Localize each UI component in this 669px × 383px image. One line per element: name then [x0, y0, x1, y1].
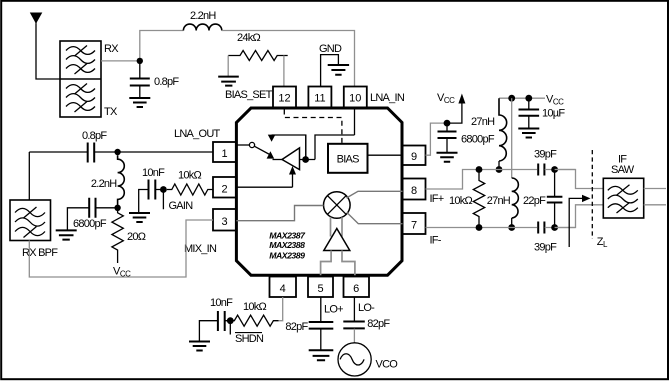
BIAS box	[328, 144, 368, 173]
pin 11	[308, 87, 331, 108]
node SHDN junction	[227, 317, 234, 324]
inductor 2.2nH (LNA_OUT)	[118, 155, 125, 208]
svg-text:BIAS: BIAS	[337, 153, 359, 165]
svg-text:10nF: 10nF	[210, 297, 233, 309]
dashed control line pin12 to BIAS	[284, 110, 342, 144]
pin 8	[403, 179, 426, 200]
op-amp U1 LNA	[282, 148, 300, 170]
capacitor 0.8pF (at duplexer RX)	[130, 61, 150, 98]
svg-text:LO-: LO-	[358, 302, 375, 314]
svg-text:IF-: IF-	[430, 235, 442, 247]
capacitor 82pF (LO-)	[343, 322, 365, 343]
switch blade	[254, 146, 271, 155]
svg-text:LNA_OUT: LNA_OUT	[174, 128, 221, 140]
capacitor 22pF	[547, 170, 563, 228]
node 10uF tap	[525, 95, 532, 102]
svg-text:22pF: 22pF	[523, 195, 546, 207]
wire IF- to SAW	[555, 205, 604, 228]
svg-text:6800pF: 6800pF	[461, 134, 495, 146]
ZL reference dashed line	[591, 150, 593, 239]
svg-text:GND: GND	[319, 43, 342, 55]
wire amp output to throw	[273, 159, 283, 161]
wire RX BPF to MIX_IN	[29, 220, 213, 277]
node 10k bottom	[476, 224, 483, 231]
node choke2 tap	[508, 95, 515, 102]
wire IF+ to SAW	[555, 170, 604, 189]
IF SAW block	[603, 178, 643, 218]
wire top rail to pin 10	[222, 31, 355, 87]
svg-text:2.2nH: 2.2nH	[91, 178, 117, 190]
node choke1 to IF+ rail	[496, 166, 503, 173]
svg-text:MAX2387: MAX2387	[269, 230, 306, 240]
wire pin10 interior	[354, 108, 356, 135]
svg-text:20Ω: 20Ω	[127, 231, 146, 243]
switch throw contact (amp side)	[267, 151, 275, 158]
output wires	[644, 189, 666, 205]
resistor 20 ohm	[112, 208, 123, 263]
pin 12	[273, 87, 296, 108]
svg-text:39pF: 39pF	[534, 242, 557, 254]
svg-text:TX: TX	[104, 106, 118, 118]
node 39pF/22pF bottom	[551, 224, 558, 231]
svg-text:24kΩ: 24kΩ	[237, 32, 260, 44]
node pin9 VCC junction	[444, 120, 451, 127]
svg-text:7: 7	[411, 220, 417, 232]
pin 5	[308, 277, 333, 298]
svg-text:10kΩ: 10kΩ	[178, 170, 201, 182]
node GAIN junction	[160, 186, 167, 193]
svg-text:MAX2389: MAX2389	[269, 250, 305, 260]
pin 4	[270, 277, 297, 298]
svg-text:6: 6	[353, 283, 359, 295]
ground (10uF)	[518, 129, 539, 138]
duplexer RX filter glyph	[66, 46, 95, 75]
VCO oscillator	[338, 343, 371, 376]
svg-text:3: 3	[221, 216, 227, 228]
wire mixer to pin 7	[347, 212, 403, 223]
capacitor 6800pF (pin 9)	[438, 123, 457, 152]
svg-text:6800pF: 6800pF	[73, 218, 107, 230]
svg-text:39pF: 39pF	[534, 149, 557, 161]
svg-text:10nF: 10nF	[142, 167, 165, 179]
node LNA input junction	[302, 156, 309, 163]
wire pin 7 to IF- rail	[426, 227, 538, 229]
svg-text:1: 1	[221, 148, 227, 160]
svg-text:LO+: LO+	[324, 304, 343, 316]
IF SAW filter glyph	[608, 185, 638, 213]
pin 6	[344, 277, 370, 298]
svg-text:RX: RX	[104, 43, 119, 55]
svg-text:LNA_IN: LNA_IN	[370, 92, 405, 104]
switch throw contact (bypass side)	[268, 135, 276, 142]
IC body MAX2387/8/9	[236, 108, 402, 275]
svg-text:10kΩ: 10kΩ	[243, 301, 266, 313]
wire pin 6 down	[353, 297, 355, 322]
inductor 27nH (IF- choke)	[512, 178, 519, 218]
svg-text:10µF: 10µF	[542, 108, 565, 120]
label MAX2387 MAX2388 MAX2389	[269, 230, 306, 260]
capacitor 6800pF (LNA_OUT)	[67, 198, 117, 230]
svg-text:SHDN: SHDN	[235, 333, 264, 345]
mixer	[324, 192, 351, 219]
ground (0.8pF at duplexer)	[129, 98, 150, 107]
RX BPF filter glyph	[15, 207, 45, 238]
svg-text:BIAS_SET: BIAS_SET	[225, 89, 273, 101]
ground (6800pF pin 9)	[437, 153, 458, 162]
wire antenna to duplexer	[36, 24, 60, 79]
svg-text:GAIN: GAIN	[169, 200, 194, 212]
wire mixer to pin 8	[346, 191, 402, 198]
wire 10k to pin 4	[279, 297, 283, 321]
svg-text:0.8pF: 0.8pF	[154, 76, 179, 88]
ground (pin 11)	[328, 65, 349, 75]
pin 2	[213, 177, 236, 198]
wire amp input node	[300, 135, 355, 160]
svg-text:10kΩ: 10kΩ	[449, 195, 472, 207]
wire down to RX BPF	[28, 152, 30, 200]
wire pin2 interior	[236, 186, 292, 188]
duplexer RX/TX	[60, 41, 101, 117]
wire bypass path	[272, 135, 306, 160]
svg-text:27nH: 27nH	[487, 195, 511, 207]
svg-text:SAW: SAW	[611, 164, 635, 176]
ground (82pF LO+)	[309, 350, 334, 360]
wire pin 5 down	[320, 297, 322, 322]
node junction 2.2nH/6800pF/20ohm	[114, 205, 120, 211]
svg-text:VCO: VCO	[376, 359, 399, 371]
ground (24k)	[218, 77, 239, 86]
wire mixer to LO buffer	[331, 217, 343, 237]
antenna	[30, 13, 43, 24]
ground (6800pF)	[56, 230, 77, 239]
svg-text:IF+: IF+	[430, 193, 444, 205]
pin 9	[403, 146, 426, 166]
svg-text:12: 12	[278, 93, 290, 105]
svg-text:2.2nH: 2.2nH	[190, 10, 216, 22]
wire pin1 to LNA_OUT net	[118, 151, 213, 153]
svg-text:82pF: 82pF	[285, 321, 308, 333]
wire pin 11 to ground	[321, 55, 339, 87]
wire pin1 interior to switch pole	[236, 144, 249, 146]
ground (10nF GAIN)	[129, 213, 150, 222]
svg-text:RX BPF: RX BPF	[22, 247, 58, 259]
capacitor 82pF (LO+)	[309, 322, 334, 350]
wire duplexer RX out	[101, 60, 140, 62]
wire pin 9 to VCC node	[426, 123, 448, 155]
svg-text:10: 10	[349, 93, 361, 105]
wire LO buffer fork to pins 5,6	[321, 251, 355, 276]
ground (10nF SHDN)	[189, 342, 210, 351]
node choke2 to IF- rail	[508, 224, 515, 231]
wire 24k left to ground	[227, 56, 229, 77]
svg-text:9: 9	[411, 151, 417, 163]
switch pole contact	[249, 142, 254, 147]
node 39pF/22pF top	[551, 166, 558, 173]
svg-text:2: 2	[221, 184, 227, 196]
capacitor 10uF	[519, 98, 540, 128]
svg-text:4: 4	[280, 283, 286, 295]
pin 3	[213, 209, 236, 231]
wire junction up to top rail	[140, 31, 184, 61]
gain control arrow	[292, 173, 294, 188]
VCC arrow (pin 9)	[447, 102, 462, 123]
node junction at RX out	[137, 58, 143, 64]
svg-text:11: 11	[314, 93, 325, 105]
node LNA_OUT junction	[114, 149, 120, 155]
svg-text:MAX2388: MAX2388	[269, 240, 305, 250]
svg-text:82pF: 82pF	[367, 318, 390, 330]
pin 10	[344, 87, 367, 108]
RX BPF block	[10, 200, 51, 241]
inductor 27nH (IF+ choke)	[499, 98, 507, 161]
VCC rail (IF chokes)	[499, 97, 545, 99]
wire choke2 feed (crosses IF+ rail)	[511, 98, 513, 178]
wire pin3 interior to mixer	[236, 206, 323, 221]
svg-text:27nH: 27nH	[471, 116, 495, 128]
capacitor 39pF (IF+)	[538, 164, 575, 176]
pin 7	[403, 213, 426, 234]
wire 24k right to pin 12	[283, 56, 285, 87]
svg-text:MIX_IN: MIX_IN	[184, 243, 217, 255]
duplexer TX filter glyph	[66, 84, 95, 113]
LO buffer amp	[324, 229, 350, 251]
capacitor 39pF (IF-)	[538, 222, 575, 234]
wire BIAS to pin 9	[368, 154, 403, 156]
pin 1	[213, 142, 236, 162]
inductor 2.2nH (top)	[183, 24, 221, 30]
resistor 10k (IF load)	[473, 170, 484, 228]
svg-text:0.8pF: 0.8pF	[82, 130, 107, 142]
svg-text:5: 5	[317, 283, 323, 295]
node 10k top	[476, 166, 483, 173]
wire pin 8 to IF+ rail	[426, 170, 538, 190]
svg-text:8: 8	[411, 185, 417, 197]
port arrow	[569, 198, 582, 247]
